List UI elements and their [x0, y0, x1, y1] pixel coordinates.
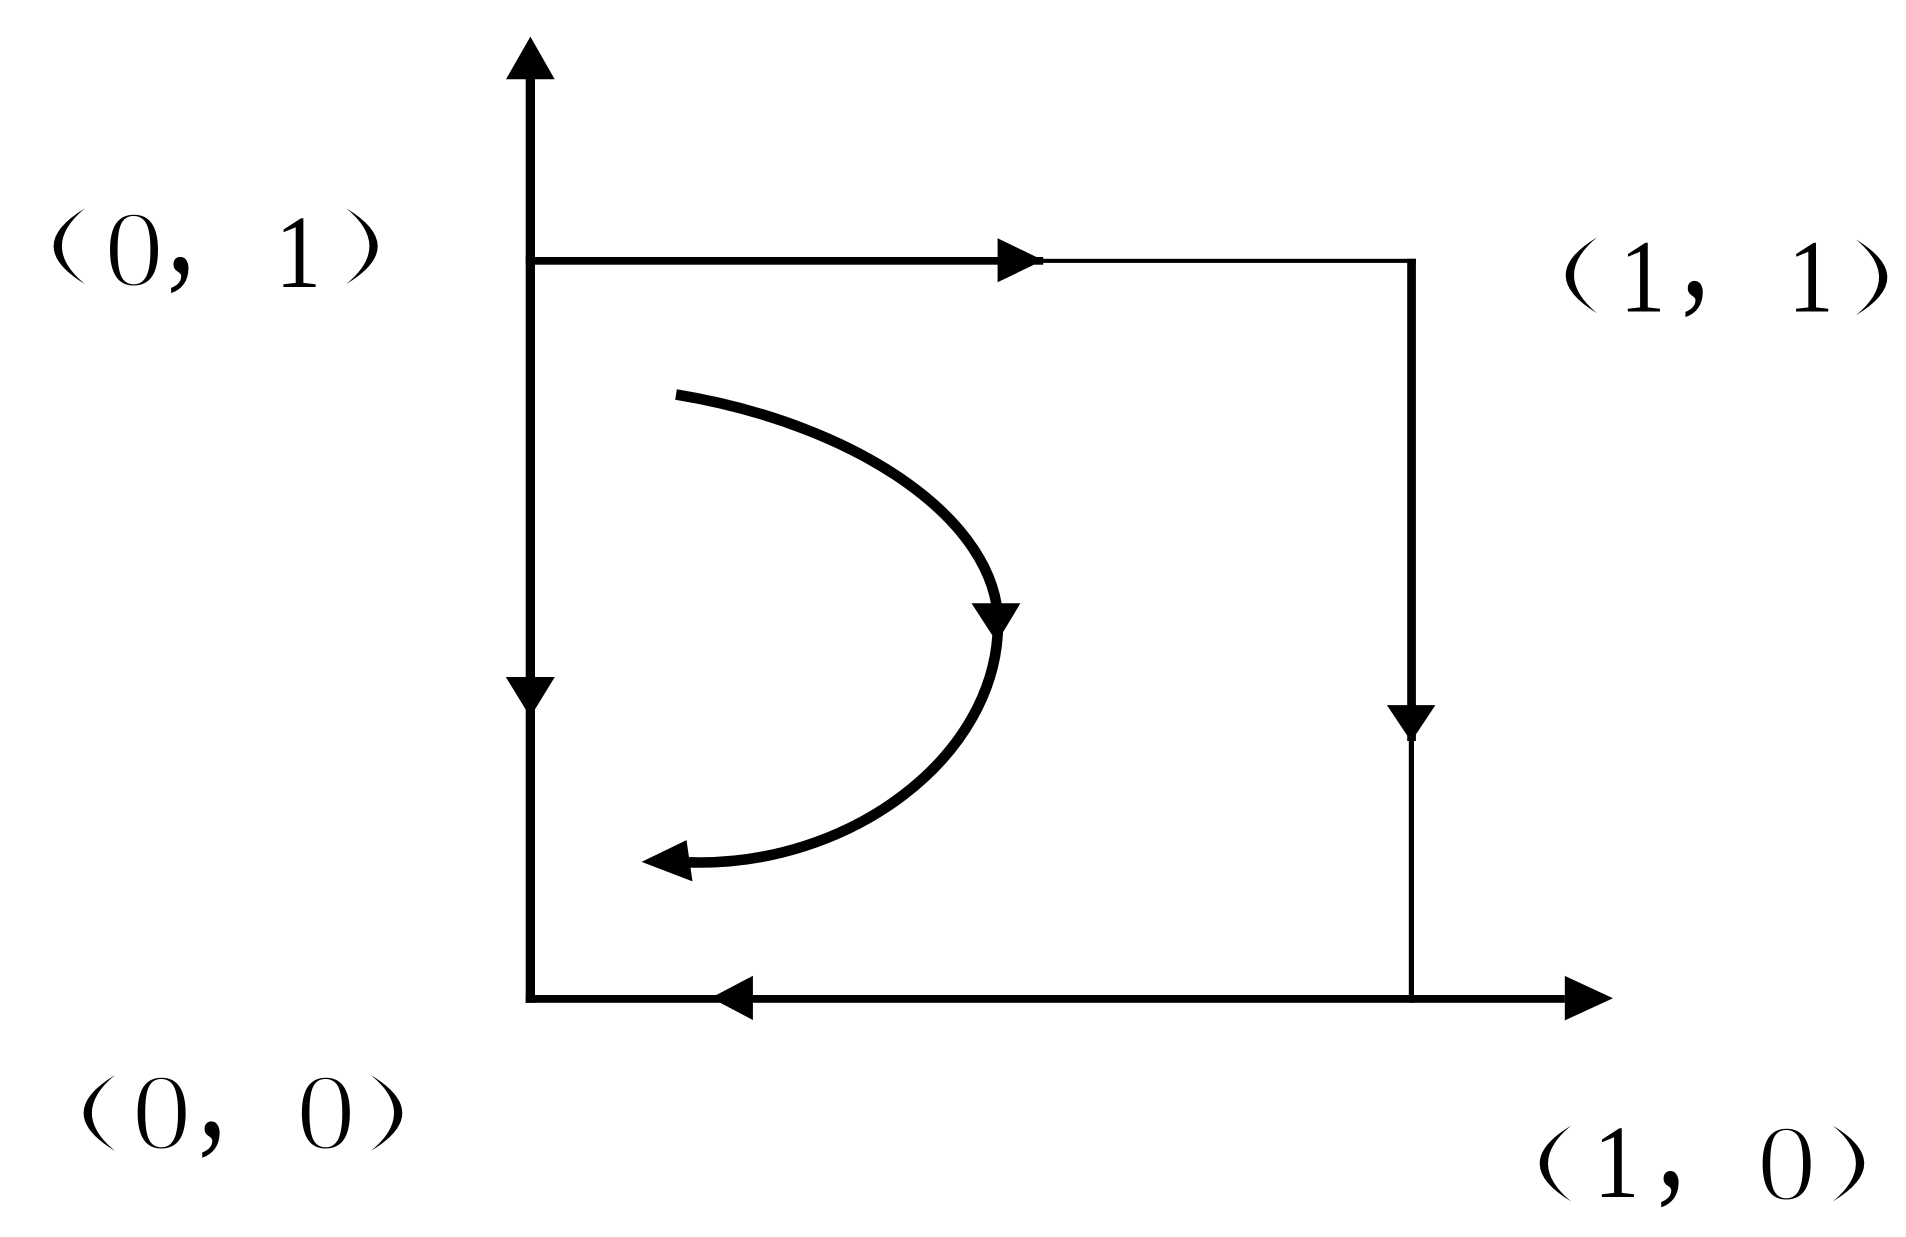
left edge downward arrowhead — [506, 677, 555, 717]
right edge downward arrowhead — [1387, 705, 1436, 741]
y-axis top arrowhead — [506, 37, 555, 80]
top edge rightward arrowhead — [998, 238, 1044, 282]
top edge thin segment — [1043, 259, 1416, 263]
trajectory curve — [676, 395, 998, 863]
svg-text:1: 1 — [275, 196, 321, 311]
top edge thick segment — [526, 257, 1043, 265]
svg-text:0: 0 — [131, 1051, 191, 1172]
corner label (1, 1) — [1566, 171, 1888, 335]
svg-text:,: , — [1681, 171, 1710, 327]
bottom edge (x-axis) — [526, 995, 1565, 1003]
corner label (0, 1) — [54, 147, 378, 311]
svg-text:,: , — [167, 147, 196, 303]
corner label (1, 0) — [1540, 1061, 1865, 1224]
trajectory mid downward arrowhead — [972, 603, 1021, 642]
bottom edge leftward arrowhead — [711, 976, 753, 1020]
trajectory end leftward arrowhead — [642, 840, 693, 881]
svg-text:1: 1 — [1620, 220, 1666, 335]
right edge thin segment — [1409, 741, 1414, 1003]
svg-text:1: 1 — [1594, 1105, 1640, 1220]
corner label (0, 0) — [84, 1012, 403, 1173]
svg-text:,: , — [198, 1012, 227, 1168]
right edge thick segment — [1407, 259, 1416, 741]
svg-text:0: 0 — [1756, 1103, 1816, 1224]
x-axis right arrowhead — [1565, 976, 1613, 1021]
svg-text:,: , — [1657, 1061, 1686, 1217]
svg-text:0: 0 — [104, 188, 164, 309]
y-axis line — [526, 60, 535, 1003]
svg-text:1: 1 — [1788, 220, 1834, 335]
svg-text:0: 0 — [296, 1051, 356, 1172]
